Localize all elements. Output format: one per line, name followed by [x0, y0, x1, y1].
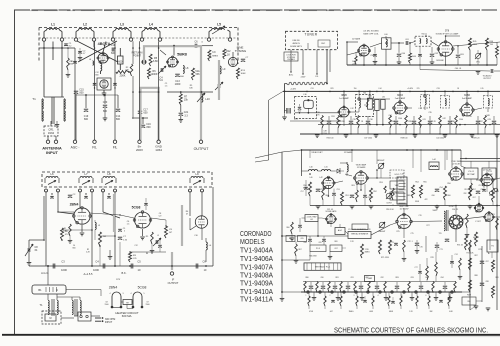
svg-text:A+1.5.5: A+1.5.5 — [83, 272, 93, 276]
svg-text:R35: R35 — [408, 121, 411, 123]
svg-text:CONT: CONT — [386, 202, 392, 204]
svg-text:C54: C54 — [439, 187, 442, 189]
wire osc top — [173, 45, 213, 56]
tuner shield dashed box (top-left VHF tuner) — [39, 28, 238, 65]
svg-text:1: 1 — [46, 187, 47, 189]
svg-text:R64: R64 — [395, 193, 398, 195]
svg-text:L46: L46 — [310, 177, 313, 179]
svg-text:600: 600 — [144, 112, 149, 115]
capacitor C11 tuner2 — [118, 228, 125, 233]
svg-text:1364: 1364 — [155, 148, 162, 152]
sync row components — [361, 232, 478, 258]
svg-text:200V: 200V — [136, 148, 143, 152]
svg-text:L6: L6 — [50, 172, 54, 176]
svg-text:B1: B1 — [38, 288, 42, 292]
svg-text:R81: R81 — [335, 277, 338, 279]
sound strip extra labels — [352, 55, 461, 70]
capacitor C19 800 — [84, 109, 89, 121]
svg-text:VERT OSC: VERT OSC — [399, 206, 409, 208]
resistor R30 boxed — [359, 96, 390, 110]
svg-text:4.7MEG: 4.7MEG — [210, 55, 218, 57]
peaking coil box L44 — [429, 159, 439, 169]
capacitor C7 — [241, 57, 249, 62]
svg-text:150: 150 — [354, 88, 357, 90]
sound ratio det dashed box — [415, 34, 431, 47]
coil L2 (tuner turret) — [74, 23, 95, 42]
svg-text:R71 470K: R71 470K — [381, 257, 390, 259]
resistor grid V4 — [63, 224, 72, 243]
svg-text:4BQ7A: 4BQ7A — [98, 42, 111, 46]
svg-text:SCHEMATIC COURTESY OF GAMBLES-: SCHEMATIC COURTESY OF GAMBLES-SKOGMO INC… — [334, 328, 488, 335]
resistor R5 6.8K — [149, 54, 158, 66]
capacitor C14 800 — [116, 109, 121, 121]
svg-text:R39 120: R39 120 — [473, 138, 480, 140]
svg-text:L34: L34 — [379, 88, 382, 90]
capacitor osc pad — [158, 240, 162, 252]
svg-text:C75: C75 — [410, 233, 413, 235]
svg-text:2BN4: 2BN4 — [109, 286, 118, 290]
svg-text:+140V: +140V — [290, 88, 297, 90]
svg-text:6CM7?: 6CM7? — [449, 206, 456, 208]
svg-text:C42: C42 — [442, 118, 445, 120]
svg-text:CR1: CR1 — [48, 128, 54, 132]
resistor R1 1K — [66, 47, 74, 77]
resistor cath V5 — [146, 232, 155, 253]
svg-text:USE R6: USE R6 — [292, 40, 300, 42]
svg-text:R91: R91 — [464, 189, 467, 191]
terminal IF OUTPUT — [168, 272, 179, 285]
capacitor C3 4.7 — [69, 61, 77, 66]
bottom chain labels above — [305, 277, 443, 279]
osc section labels — [165, 83, 194, 89]
svg-text:100K: 100K — [240, 73, 246, 75]
svg-text:6: 6 — [115, 187, 116, 189]
svg-text:C72 .1: C72 .1 — [407, 241, 412, 243]
svg-text:270: 270 — [317, 114, 320, 116]
svg-text:5: 5 — [124, 231, 125, 233]
svg-text:270: 270 — [417, 88, 420, 90]
balun dashed box — [42, 311, 61, 324]
coil L10 (variable) — [197, 91, 210, 102]
tube V10 sound takeoff amp — [352, 37, 371, 56]
small box R61 — [286, 236, 295, 242]
wire ubox feed — [66, 290, 101, 297]
wire bottom chain rail — [282, 291, 462, 293]
capacitor C22 — [68, 194, 76, 198]
svg-text:L5: L5 — [157, 235, 159, 237]
AGC keyed box — [335, 224, 345, 235]
sync row labels — [364, 241, 481, 259]
svg-text:C61: C61 — [405, 39, 408, 41]
video row components — [309, 182, 495, 205]
coil L6 (tuner 2) — [45, 172, 59, 185]
svg-text:OUTPUT: OUTPUT — [194, 147, 210, 151]
wire IF ground rail — [300, 128, 500, 135]
svg-text:800: 800 — [116, 118, 121, 121]
svg-text:1K: 1K — [227, 53, 230, 56]
test point (RETURN POINT) — [132, 51, 147, 65]
label 1000 — [175, 82, 181, 86]
IF labels row — [323, 118, 491, 140]
terminal AGC — [71, 140, 80, 150]
wire AGC drop — [74, 48, 76, 140]
resistor R11 536 — [192, 68, 201, 80]
svg-text:OUTPUT: OUTPUT — [483, 78, 492, 80]
wire sound strip input — [347, 42, 359, 65]
contrast pot — [386, 193, 393, 204]
capacitor C15 800 — [74, 89, 85, 95]
wire video amp links — [328, 170, 391, 196]
svg-text:1500: 1500 — [105, 304, 109, 306]
svg-text:C69: C69 — [318, 242, 321, 244]
resistor R6 200K — [148, 68, 158, 79]
sync row box PC-3 — [310, 245, 326, 252]
wire video bottom rail — [310, 196, 500, 209]
wire grid link V4 — [57, 211, 74, 214]
svg-text:C3: C3 — [61, 260, 65, 264]
tube V6 (fine tuning) — [195, 216, 207, 228]
bottom chain mid labels — [306, 295, 451, 297]
svg-text:L32: L32 — [351, 108, 354, 110]
resistor R4 200K — [116, 71, 130, 78]
tube V16 video amp triode — [354, 163, 369, 184]
svg-text:5: 5 — [103, 187, 104, 189]
svg-text:AGC: AGC — [338, 229, 343, 232]
terminal B+ 200V — [136, 140, 143, 152]
svg-text:3DK6: 3DK6 — [397, 94, 404, 97]
wire sound strip links — [370, 33, 500, 47]
wire FIL drops — [95, 41, 116, 140]
resistor near V5 — [165, 226, 173, 238]
label power — [116, 279, 121, 281]
svg-text:C73: C73 — [390, 242, 393, 244]
wire right leg tuner2 — [190, 187, 213, 266]
tube V22 noise inv — [474, 196, 484, 212]
svg-text:VERT: VERT — [395, 185, 399, 187]
tuner block dashed box — [286, 31, 338, 49]
tube V14 3rd IF — [460, 91, 475, 117]
IF output coil T33 — [473, 91, 493, 113]
resistor R7 15K — [179, 91, 188, 105]
svg-text:1MEG: 1MEG — [364, 251, 370, 253]
coil L1 (tuner turret) — [42, 23, 63, 42]
IF interstage coil T31 — [421, 91, 430, 111]
svg-text:T60: T60 — [421, 34, 424, 36]
tube V1 4BQ7A (RF amp) — [97, 42, 111, 63]
svg-text:R75: R75 — [396, 231, 399, 233]
svg-text:C80: C80 — [320, 277, 323, 279]
svg-text:5CG8: 5CG8 — [138, 286, 147, 290]
capacitor C60 — [397, 42, 406, 65]
svg-text:R67: R67 — [298, 249, 301, 251]
wire B+ drop — [139, 41, 141, 140]
antenna terminal box 2 — [74, 312, 91, 321]
svg-text:1500: 1500 — [459, 119, 463, 121]
svg-text:800: 800 — [80, 92, 85, 95]
tube V11 5T8 sound det — [437, 41, 454, 57]
svg-text:AGC: AGC — [289, 74, 294, 77]
svg-text:R31: R31 — [331, 116, 334, 118]
svg-text:R57: R57 — [472, 189, 475, 191]
label 5T8 sound IF — [436, 30, 459, 36]
coil L8 (tuner 2) — [102, 172, 116, 185]
wire V5 plate — [151, 218, 167, 227]
resistor R44 — [409, 42, 417, 65]
wire heater bottom — [112, 305, 133, 309]
svg-text:L60: L60 — [384, 34, 387, 36]
svg-text:1500: 1500 — [146, 304, 150, 306]
wire left leg — [29, 196, 44, 248]
tube V3 fine tuning indicator — [228, 52, 237, 67]
sound extra caps — [373, 46, 422, 65]
svg-text:FUSE: FUSE — [467, 294, 471, 296]
tube V17 sync sep — [449, 161, 464, 181]
svg-text:1200K: 1200K — [151, 73, 158, 76]
svg-text:HEIGHT: HEIGHT — [379, 231, 387, 233]
sync extra 1 — [294, 236, 326, 263]
bottom chain terminals — [307, 291, 453, 293]
clamp box — [365, 276, 375, 282]
svg-text:NOISE GATE: NOISE GATE — [326, 210, 338, 213]
signal path highlight (gray) — [140, 46, 220, 140]
svg-text:VIDEO DET: VIDEO DET — [311, 152, 323, 154]
tube V1b mixer section — [97, 78, 111, 90]
svg-text:SYNC SEP: SYNC SEP — [451, 161, 461, 163]
sync extra labels — [298, 231, 413, 258]
resistor mid — [99, 232, 107, 246]
svg-text:T70: T70 — [438, 233, 441, 235]
resistor R45 470K — [469, 38, 478, 50]
dots tuner2 mid — [43, 229, 116, 247]
svg-text:R5: R5 — [146, 236, 148, 238]
tube V12 3BZ6 1st IF — [338, 91, 350, 118]
tube V2 5BR8 (osc/mixer) — [160, 50, 187, 67]
svg-text:C76: C76 — [418, 215, 421, 217]
svg-text:C57: C57 — [300, 191, 303, 193]
dots top bus — [94, 45, 175, 49]
svg-text:2BN4: 2BN4 — [70, 203, 79, 207]
horiz dense cluster — [414, 252, 437, 282]
svg-text:C41: C41 — [422, 119, 425, 121]
label 2BN4 heater — [109, 286, 118, 290]
vertical integrator box — [348, 224, 371, 239]
svg-text:R80: R80 — [305, 277, 308, 279]
wire double rail right — [460, 158, 500, 161]
bottom chain components above rail — [303, 282, 456, 293]
svg-text:1/2 6AX8: 1/2 6AX8 — [344, 151, 353, 154]
wire GND drop — [158, 41, 160, 140]
svg-text:C66: C66 — [431, 195, 434, 197]
svg-text:R93: R93 — [491, 214, 494, 216]
svg-text:MC TRAP: MC TRAP — [485, 173, 493, 176]
terminal FIL 2 — [113, 140, 118, 150]
wire balun — [61, 316, 100, 318]
svg-text:.01: .01 — [489, 195, 491, 197]
right column parts 1 — [464, 179, 497, 196]
terminal OUTPUT — [194, 140, 210, 151]
svg-text:C4: C4 — [95, 260, 99, 264]
wire plate link V4-V5 — [90, 213, 134, 218]
video junction dots — [309, 169, 471, 206]
svg-text:C31: C31 — [310, 88, 313, 90]
svg-text:R43 68K: R43 68K — [436, 60, 444, 62]
wire left vertical bus — [281, 152, 283, 293]
terminal strip box — [32, 285, 66, 294]
svg-text:SOME SETS: SOME SETS — [290, 46, 302, 48]
video extra parts 1 — [304, 180, 336, 206]
coil L5 (oscillator, variable) — [207, 23, 231, 42]
svg-text:C59: C59 — [367, 197, 370, 199]
wire cap row drops — [62, 240, 152, 266]
wire mid horizontals — [62, 230, 115, 236]
svg-text:C39: C39 — [352, 119, 355, 121]
tuner 2 pin circles — [45, 189, 204, 192]
label sound takeoff coil — [363, 31, 379, 36]
resistor R46 1MEG — [486, 38, 494, 50]
svg-text:C74: C74 — [454, 254, 457, 256]
coil L9 (tuner 2) — [190, 172, 204, 185]
svg-text:C67: C67 — [334, 248, 337, 250]
svg-text:L1: L1 — [51, 23, 55, 27]
IF rail dots — [306, 91, 490, 126]
svg-text:VERT: VERT — [432, 210, 438, 212]
svg-text:800: 800 — [95, 74, 98, 76]
svg-text:C10: C10 — [194, 235, 197, 237]
svg-text:AGC -: AGC - — [71, 146, 80, 150]
bottom chain dots — [304, 291, 456, 293]
svg-text:R82: R82 — [365, 277, 368, 279]
horiz section box — [462, 294, 476, 305]
svg-text:C56 .25: C56 .25 — [452, 209, 458, 211]
svg-text:C68: C68 — [303, 242, 306, 244]
svg-text:L3: L3 — [120, 23, 124, 27]
tube V4 2BN4 (RF amp) — [70, 203, 92, 225]
IF extra labels — [310, 88, 483, 90]
svg-text:C65: C65 — [300, 238, 303, 240]
svg-text:C84: C84 — [440, 277, 443, 279]
pin caps tuner2 — [50, 193, 110, 198]
wire right section verticals — [470, 222, 490, 310]
video det labels — [309, 151, 353, 168]
svg-text:L5: L5 — [217, 23, 221, 27]
trap box L70 — [464, 161, 478, 179]
filament caps — [93, 83, 117, 88]
bottom chain labels below — [309, 311, 454, 313]
resistor r24 — [129, 252, 138, 262]
svg-text:C91: C91 — [478, 185, 481, 187]
label HEATER CIRCUIT — [115, 311, 139, 318]
svg-text:R88: R88 — [474, 275, 477, 277]
bottom chain caps row2 — [331, 292, 442, 303]
wire bottom bus — [167, 46, 213, 92]
svg-text:C77: C77 — [414, 267, 417, 269]
svg-text:R89: R89 — [495, 277, 498, 279]
svg-text:5: 5 — [402, 295, 403, 297]
svg-text:L41: L41 — [324, 167, 327, 169]
left boxes stack — [390, 170, 404, 200]
svg-text:2: 2 — [58, 187, 59, 189]
small box C65 — [298, 236, 307, 242]
trap box 4.5MC — [302, 176, 323, 222]
vert mult box — [304, 263, 341, 270]
svg-text:C45: C45 — [468, 116, 471, 118]
tube V6 leads — [190, 226, 202, 240]
svg-text:C43: C43 — [487, 119, 490, 121]
svg-text:C34: C34 — [388, 115, 391, 117]
resistor R3 600 (boxed) — [118, 48, 124, 70]
svg-text:7: 7 — [450, 295, 451, 297]
svg-text:1.5: 1.5 — [165, 85, 168, 87]
svg-text:1000: 1000 — [61, 268, 67, 272]
svg-text:C88: C88 — [485, 281, 488, 283]
svg-text:TO AUDIO: TO AUDIO — [483, 74, 493, 77]
svg-text:2: 2 — [330, 295, 331, 297]
wire long vertical IF input — [282, 91, 287, 119]
svg-text:C71: C71 — [439, 249, 442, 251]
svg-text:5BR8: 5BR8 — [177, 52, 187, 56]
IF strip bias components row — [321, 116, 497, 129]
svg-text:R83: R83 — [395, 277, 398, 279]
video row labels — [303, 182, 499, 211]
bottom left chain stub — [280, 292, 285, 301]
svg-text:R72 10K: R72 10K — [467, 253, 475, 255]
wire tuner2 drops — [46, 192, 202, 266]
svg-text:C12: C12 — [134, 245, 137, 247]
capacitor C62 — [430, 47, 439, 65]
resistor R40 — [355, 52, 357, 65]
sound takeoff coil box — [382, 34, 391, 49]
svg-text:OSC ADJ: OSC ADJ — [287, 58, 295, 61]
vert output transformer — [444, 210, 448, 231]
capacitor C6 .5 — [194, 41, 203, 48]
capacitor C2 4.7 — [78, 48, 87, 60]
coil L11 — [206, 238, 212, 262]
svg-text:536: 536 — [196, 73, 201, 76]
bottom chain components below rail — [308, 292, 450, 309]
svg-text:+140V: +140V — [407, 88, 414, 90]
label FINE TUNING — [235, 46, 247, 54]
variable capacitor C9 — [25, 244, 38, 265]
video extra parts 2 — [356, 184, 395, 206]
coil L8 osc coil — [183, 66, 189, 74]
svg-text:4: 4 — [131, 293, 132, 295]
antenna input terminals — [46, 136, 57, 144]
wire IF top rail — [283, 88, 500, 92]
svg-text:R60: R60 — [286, 227, 289, 229]
svg-text:HORIZ: HORIZ — [473, 237, 480, 239]
wire video rail — [301, 149, 461, 176]
wire IF mid rail — [318, 124, 500, 126]
svg-text:R74 1K: R74 1K — [457, 245, 464, 247]
svg-text:L33: L33 — [419, 108, 422, 110]
capacitor C1 8.2 — [64, 43, 72, 48]
svg-text:5-9: 5-9 — [159, 215, 162, 217]
svg-text:C83: C83 — [410, 277, 413, 279]
svg-text:R66: R66 — [447, 195, 450, 197]
svg-text:4: 4 — [110, 293, 111, 295]
svg-text:R65: R65 — [407, 195, 410, 197]
svg-text:R48: R48 — [486, 115, 489, 117]
resistor R31 boxed — [375, 99, 379, 110]
coil plate V4 — [95, 220, 100, 240]
brightness pot — [377, 160, 385, 178]
noise gate tube — [322, 210, 337, 224]
label 3rd IF amp — [462, 94, 473, 100]
video det coils — [302, 150, 336, 171]
svg-text:R90: R90 — [467, 301, 470, 303]
svg-text:C44 1500: C44 1500 — [436, 138, 444, 140]
transformer T2 (power) — [39, 294, 58, 316]
